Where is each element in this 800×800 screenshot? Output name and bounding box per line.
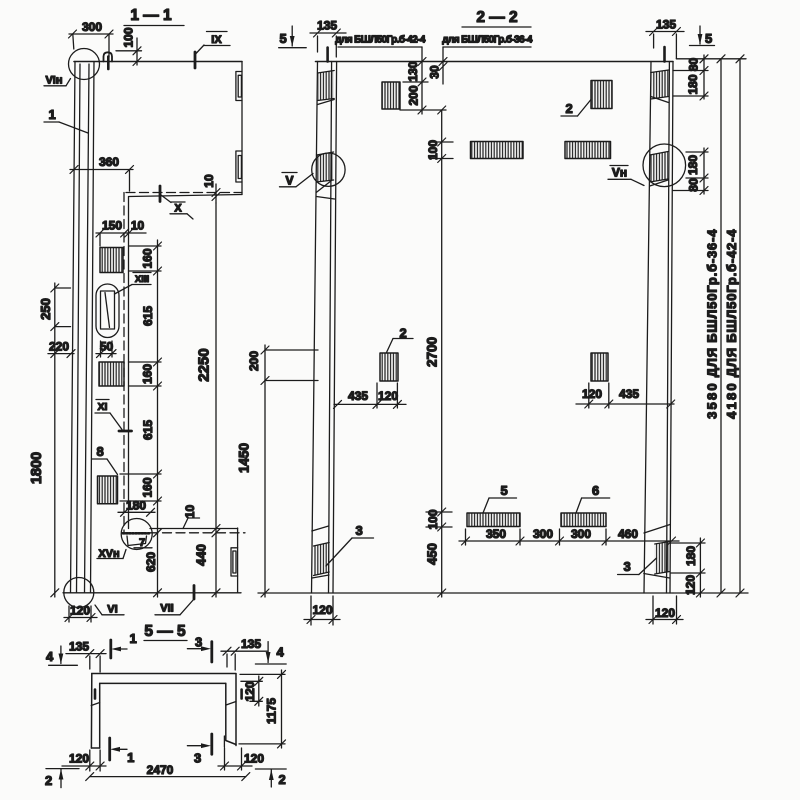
plate mid-right: [591, 353, 608, 381]
dim 120 (5-5 top right): [241, 676, 263, 706]
section arrow 5 right: [690, 26, 715, 46]
svg-text:120: 120: [684, 575, 698, 595]
overall dim line 4180: [724, 55, 744, 597]
svg-text:435: 435: [619, 387, 639, 401]
svg-text:160: 160: [141, 364, 155, 384]
svg-text:135: 135: [656, 18, 676, 32]
svg-text:120: 120: [244, 752, 264, 766]
plate 6: [561, 513, 606, 527]
plate mid-left (2): [380, 353, 398, 381]
panel top edge: [316, 61, 674, 63]
dim 120 (5-5 bottom left): [62, 750, 106, 771]
section mark 1 bottom: [110, 738, 134, 765]
svg-text:Vн: Vн: [612, 166, 627, 180]
label Vn: [608, 166, 644, 186]
dims 120/435 right: [576, 383, 675, 408]
svg-text:100: 100: [426, 140, 440, 160]
section mark 3 top: [187, 635, 211, 663]
dim 300: [69, 20, 114, 57]
label VI: [95, 604, 124, 616]
bottom flange hidden dashed: [122, 532, 245, 534]
top flange right edge: [241, 62, 243, 195]
svg-text:135: 135: [69, 640, 89, 654]
dims 350/300/300/460: [459, 527, 679, 545]
svg-text:300: 300: [82, 20, 102, 34]
label V: [280, 173, 314, 188]
detail circle XVn: [121, 519, 152, 550]
dim column 2250/440: [194, 189, 221, 598]
notch upper: [236, 72, 242, 101]
channel inner left: [99, 683, 101, 748]
plate row right: [565, 142, 611, 159]
right rib right edge: [667, 62, 670, 594]
channel inner top: [100, 682, 226, 684]
dim 200/1450 column: [237, 345, 319, 597]
svg-text:3: 3: [195, 635, 202, 650]
svg-text:30: 30: [428, 65, 442, 79]
left dim column 250/1800: [29, 283, 71, 597]
bottom flange right edge: [237, 528, 239, 593]
label 5: [483, 483, 517, 513]
svg-text:200: 200: [247, 351, 261, 371]
overall dim line 3580: [705, 55, 726, 597]
svg-text:120: 120: [312, 603, 332, 617]
svg-text:ДЛЯ БШЛ50Гр.б-42-4: ДЛЯ БШЛ50Гр.б-42-4: [724, 229, 739, 378]
svg-text:300: 300: [533, 527, 553, 541]
right rib right edge 2: [670, 62, 673, 594]
svg-text:1450: 1450: [237, 443, 252, 473]
dim 120 (5-5 bottom right): [218, 748, 264, 770]
svg-text:XIII: XIII: [135, 274, 149, 285]
svg-text:10: 10: [183, 505, 197, 519]
dim 360: [70, 155, 134, 191]
svg-text:180: 180: [126, 499, 146, 513]
left rib left edge: [312, 62, 318, 594]
svg-text:5 — 5: 5 — 5: [144, 623, 186, 640]
section mark 1 top: [111, 631, 137, 658]
plate row left: [471, 142, 524, 159]
section arrow 4 left: [46, 646, 77, 665]
panel top edge: [74, 61, 242, 63]
svg-text:440: 440: [194, 544, 209, 566]
svg-text:V: V: [285, 174, 293, 188]
panel left flange edge lines: [71, 62, 76, 593]
channel outer top: [92, 673, 236, 675]
svg-text:IX: IX: [211, 34, 222, 46]
svg-text:615: 615: [141, 420, 155, 440]
svg-text:100: 100: [426, 509, 440, 529]
svg-text:ДЛЯ БШЛ50Гр.б-36-4: ДЛЯ БШЛ50Гр.б-36-4: [705, 229, 720, 378]
title 1-1: [124, 7, 184, 26]
section mark IX: [195, 32, 230, 69]
web hidden dashed line: [123, 193, 125, 534]
svg-text:для БШЛ50Гр.б-42-4: для БШЛ50Гр.б-42-4: [335, 34, 426, 46]
bottom flange top edge: [150, 528, 238, 530]
svg-text:5: 5: [279, 31, 286, 46]
svg-text:2: 2: [565, 101, 572, 116]
svg-text:1: 1: [48, 107, 55, 122]
svg-text:2470: 2470: [147, 763, 174, 777]
dims 435/120 left: [334, 383, 407, 408]
svg-text:620: 620: [144, 552, 158, 572]
svg-text:для БШЛ50Гр.б-36-4: для БШЛ50Гр.б-36-4: [442, 34, 533, 46]
left leg bottom: [91, 747, 99, 749]
dim 120 bottom right rib: [646, 596, 683, 624]
plate top-left: [382, 82, 400, 109]
right lifting loop: [663, 47, 666, 62]
dim 2470: [86, 763, 250, 781]
detail circle VIn: [69, 49, 100, 80]
dim 50: [96, 340, 116, 358]
dim column 130/200: [400, 58, 446, 115]
right rib mid hatch: [650, 152, 668, 187]
right leg bottom: [226, 741, 236, 745]
svg-text:120: 120: [69, 752, 89, 766]
svg-text:X: X: [174, 203, 182, 215]
channel inner right: [225, 683, 227, 740]
label 2 top: [561, 100, 591, 117]
web solid line: [128, 197, 130, 529]
title 2-2: [462, 9, 531, 27]
dim 100 (loop): [116, 27, 142, 65]
plate R1: [100, 248, 123, 273]
svg-text:360: 360: [99, 155, 119, 169]
label 7: [134, 537, 152, 549]
svg-text:180: 180: [684, 546, 698, 566]
dim 10 top (flange underside): [202, 174, 216, 203]
svg-text:XI: XI: [98, 401, 108, 413]
section mark 3 bottom: [187, 734, 211, 766]
dim column 160/615 chain: [120, 240, 162, 597]
label VIn: [44, 75, 71, 87]
svg-text:2 — 2: 2 — 2: [476, 9, 517, 26]
dim 220: [48, 340, 75, 358]
section mark XI: [95, 400, 132, 432]
svg-text:160: 160: [141, 248, 155, 268]
lifting loop: [104, 52, 113, 61]
section arrow 2 left: [45, 769, 79, 788]
svg-text:2250: 2250: [196, 348, 213, 381]
svg-text:180: 180: [686, 74, 700, 94]
label 3 left: [326, 523, 374, 566]
svg-text:5: 5: [500, 483, 507, 498]
dim 120 bottom: [64, 604, 97, 623]
svg-text:VIн: VIн: [45, 75, 62, 87]
left rib inner edge: [329, 62, 332, 594]
dim 120 bottom left rib: [304, 596, 340, 625]
svg-text:1175: 1175: [265, 698, 279, 724]
svg-text:1: 1: [129, 631, 136, 646]
svg-text:120: 120: [70, 604, 90, 618]
svg-text:8: 8: [96, 444, 103, 459]
svg-text:220: 220: [49, 340, 69, 354]
item 7 bracket: [127, 536, 147, 546]
dim 135 (5-5 left): [66, 640, 106, 673]
svg-text:3: 3: [194, 751, 201, 766]
bar mark 1 in left leg: [94, 690, 97, 699]
hidden edge dashed: [126, 192, 242, 194]
section arrow 5 left: [279, 26, 307, 48]
label dlya BShL50Gr.b-36-4: [442, 34, 533, 48]
dim 135 (5-5 right): [221, 637, 267, 670]
svg-text:435: 435: [348, 389, 368, 403]
svg-text:120: 120: [243, 681, 257, 701]
svg-text:VII: VII: [160, 603, 173, 615]
svg-text:135: 135: [241, 637, 261, 651]
svg-text:120: 120: [378, 389, 398, 403]
svg-text:5: 5: [705, 31, 712, 46]
svg-text:4: 4: [46, 649, 54, 664]
label 10 (bottom flange): [183, 505, 200, 529]
left rib mid hatch: [316, 152, 334, 199]
panel bottom edge: [63, 592, 241, 594]
plate oval XIII: [96, 284, 119, 338]
left lifting loop: [326, 48, 329, 62]
top flange underside: [129, 195, 242, 197]
notch lower: [236, 151, 242, 182]
right dim column 80/180/180/80: [673, 55, 746, 195]
svg-text:100: 100: [122, 27, 136, 47]
svg-text:460: 460: [618, 527, 638, 541]
center dim column 100/2700/100/450: [425, 106, 454, 597]
dim 1175: [239, 670, 286, 748]
svg-text:6: 6: [592, 483, 599, 498]
label VII: [155, 586, 194, 615]
left rib inner edge 2: [333, 62, 337, 594]
svg-text:VI: VI: [107, 604, 117, 616]
svg-text:2: 2: [45, 773, 52, 788]
left rib top hatch: [318, 71, 335, 105]
detail circle VI: [64, 578, 94, 608]
label 3 right: [618, 558, 657, 575]
svg-text:130: 130: [406, 61, 420, 81]
label 2 mid: [387, 326, 414, 353]
svg-text:120: 120: [582, 387, 602, 401]
svg-text:2: 2: [278, 772, 285, 787]
label 8: [92, 444, 118, 475]
rebar 1 (vertical bars): [85, 64, 90, 593]
svg-text:10: 10: [202, 174, 216, 188]
bottom notch: [231, 548, 238, 576]
svg-text:1 — 1: 1 — 1: [130, 7, 172, 24]
section mark X: [160, 186, 193, 219]
svg-text:2700: 2700: [425, 337, 440, 367]
title 5-5: [144, 623, 187, 641]
svg-text:80: 80: [687, 178, 701, 192]
label dlya BShL50Gr.b-42-4: [335, 34, 426, 62]
dim 135 left: [310, 19, 346, 58]
channel outer right: [235, 674, 237, 746]
right rib bottom hatch: [644, 525, 670, 579]
plate 5: [467, 513, 520, 527]
svg-text:450: 450: [425, 543, 440, 565]
section mark XIII: [115, 273, 152, 295]
svg-text:1: 1: [127, 750, 134, 765]
left rib bottom hatch: [312, 526, 329, 578]
svg-text:3: 3: [355, 523, 362, 538]
svg-text:1800: 1800: [29, 452, 45, 484]
detail circle Vn: [643, 144, 686, 187]
plate R3: [98, 476, 118, 504]
dims 150 / 10: [96, 219, 146, 247]
detail circle V: [312, 153, 345, 186]
right bottom dim column 180/120: [671, 538, 705, 597]
svg-text:150: 150: [102, 219, 122, 233]
section arrow 4 right: [255, 642, 286, 664]
dim 180: [118, 499, 155, 517]
right rib top hatch: [651, 70, 669, 103]
label 1: [44, 107, 88, 133]
svg-text:4180: 4180: [724, 381, 739, 419]
svg-text:350: 350: [486, 527, 506, 541]
plate R2: [99, 362, 124, 386]
channel outer left: [90, 674, 92, 749]
svg-text:4: 4: [276, 645, 284, 660]
panel bottom edge: [258, 592, 673, 594]
svg-text:160: 160: [141, 477, 155, 497]
bar mark 1 in right leg: [240, 690, 243, 699]
label 6: [576, 483, 610, 513]
label XVn: [97, 548, 126, 560]
plate top-right (2): [591, 81, 612, 109]
svg-text:615: 615: [141, 306, 155, 326]
section arrow 2 right: [255, 769, 286, 787]
svg-text:10: 10: [131, 219, 145, 233]
svg-text:50: 50: [100, 340, 114, 354]
dim 135 right: [646, 18, 684, 59]
right rib left edge: [644, 62, 651, 594]
svg-text:3580: 3580: [705, 381, 720, 419]
item 7 (dotted plate in circle): [123, 532, 149, 535]
svg-text:200: 200: [407, 85, 421, 105]
dim 30: [428, 47, 448, 84]
svg-text:180: 180: [686, 155, 700, 175]
svg-text:80: 80: [687, 58, 701, 72]
svg-text:135: 135: [317, 19, 337, 33]
svg-text:3: 3: [623, 559, 630, 574]
svg-text:300: 300: [571, 527, 591, 541]
svg-text:250: 250: [38, 298, 53, 320]
svg-text:120: 120: [655, 606, 675, 620]
